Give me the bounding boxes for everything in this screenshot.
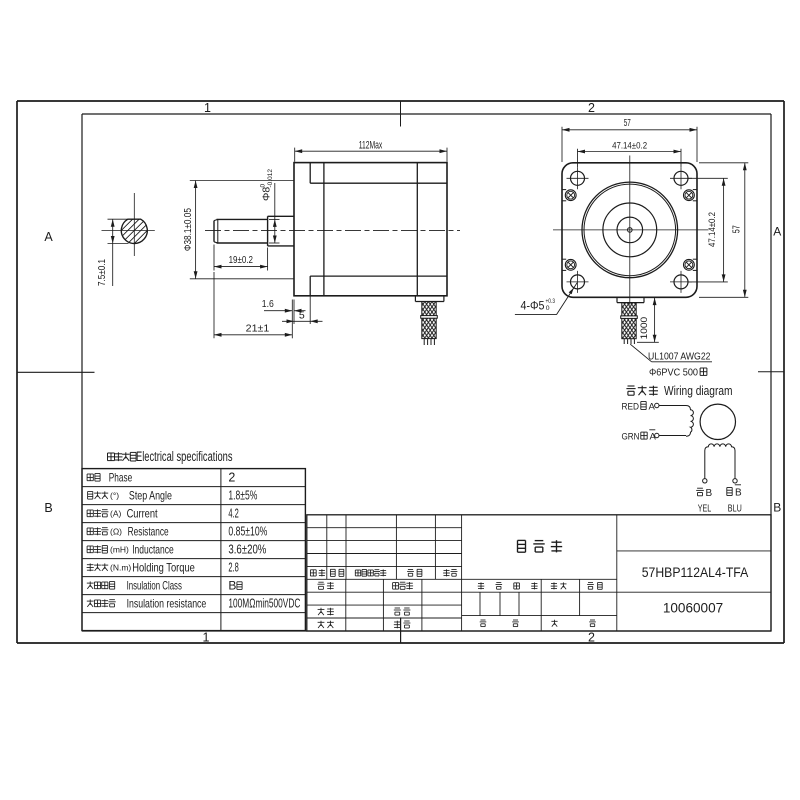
label 标准化 [393,582,399,584]
title block revision rows [307,527,462,529]
dimension Φ8-0.012 extension lines [269,218,280,220]
svg-text:0: 0 [260,184,267,188]
shaft section horizontal centerline [102,230,155,232]
svg-text:1: 1 [203,631,210,645]
rear cap joint line [416,163,418,296]
label 黄B [697,487,703,489]
outer border frame [17,100,784,102]
svg-text:5: 5 [299,310,305,322]
svg-text:Electrical specifications: Electrical specifications [136,449,233,464]
cable braid (side view) [422,302,436,339]
dimension 57 top line and arrows [562,129,697,131]
rotor circle [700,404,735,439]
svg-text:7.5±0.1: 7.5±0.1 [97,259,108,286]
front cap joint line [323,163,325,296]
svg-text:A: A [650,431,657,442]
dimension 7.5±0.1 extension lines [108,218,129,220]
svg-text:Resistance: Resistance [128,525,169,539]
svg-text:21±1: 21±1 [246,322,270,334]
dimension 47.14±0.2 right line and arrows [723,178,725,282]
dimension 57 right line and arrows [744,163,746,297]
svg-text:Phase: Phase [109,471,133,485]
svg-text:B: B [773,501,781,515]
front boss (side view) [268,215,294,217]
terminal A-bar [655,433,659,437]
svg-text:-0.012: -0.012 [267,169,274,188]
rear cable boss (side view) [414,296,416,302]
title block outline [307,515,771,631]
wire A-bar [659,435,686,437]
svg-text:Wiring diagram: Wiring diagram [664,384,733,398]
mounting hole top-left [571,171,585,185]
cable lead wires (side view) [423,339,425,345]
motor body outline (side view) [294,163,447,296]
assembly screw top-right [684,190,695,201]
svg-text:Inductance: Inductance [132,543,174,557]
title block lower columns [345,579,347,631]
assembly screw bottom-left [565,259,576,270]
dimension 1000 line and arrows [654,298,656,343]
label 第 页 [551,620,557,622]
mid table row 图样标记 重量 比例 [462,578,617,580]
svg-text:2: 2 [228,471,235,485]
svg-text:4.2: 4.2 [228,507,238,521]
dimension 21±1 line and arrows [214,334,292,336]
dimension Φ38.1±0.05 line and arrows [195,181,197,279]
label 蓝B-bar [727,487,732,489]
spec-sheet cell 规格书 [518,539,526,541]
spec table title 技术参数Electrical specifications [108,452,115,454]
spec row Inductance [87,545,93,547]
svg-text:B: B [706,488,713,499]
dimension 1.6 extension line [293,300,295,325]
svg-text:(°): (°) [110,490,119,500]
pilot boss outer circle [582,182,678,278]
svg-text:1: 1 [204,101,211,115]
dimension 47.14±0.2 top line and arrows [578,151,682,153]
wire A [659,405,686,407]
assembly screw top-left [565,190,576,201]
svg-text:2: 2 [588,101,595,115]
svg-text:47.14±0.2: 47.14±0.2 [707,212,718,247]
cable ferrule band (front view) [621,316,638,319]
leader 4-Φ5 [515,314,557,316]
svg-text:10060007: 10060007 [663,599,723,615]
svg-text:Holding Torque: Holding Torque [132,561,195,575]
mounting hole bottom-right [674,275,688,289]
shaft (side view) [217,218,268,220]
leader UL1007 [630,344,651,362]
dimension 5 extension line [309,296,311,324]
svg-text:B: B [228,579,236,593]
front view vertical centerline [629,156,631,305]
svg-text:A: A [773,225,781,239]
shaft centerline [205,229,460,231]
label 日期 [394,621,400,623]
svg-text:BLU: BLU [728,503,742,514]
model number column lines [616,515,618,631]
spec row Current [87,509,93,511]
spec row Step Angle [88,491,93,493]
svg-text:Step Angle: Step Angle [129,489,172,503]
shaft circle (front view) [617,217,643,243]
svg-text:(N.m): (N.m) [110,562,131,572]
motor body inner top line [310,182,447,184]
svg-text:Insulation resistance: Insulation resistance [127,597,207,611]
mounting hole top-right [674,171,688,185]
wiring diagram title 接线图Wiring diagram [628,385,635,387]
svg-text:(Ω): (Ω) [110,526,122,536]
right zone divider A/B [758,371,784,373]
label 图样标记 [478,583,484,585]
left zone divider A/B [17,371,95,373]
terminal B [703,479,707,483]
svg-text:112Max: 112Max [359,140,383,152]
svg-text:Φ6PVC 500: Φ6PVC 500 [649,367,698,379]
cable braid (front view) [622,303,636,339]
dimension 19±0.2 extension lines [213,245,215,271]
subcells under 图样标记 [479,592,481,615]
svg-text:3.6±20%: 3.6±20% [228,543,266,557]
label 审核 [318,608,325,610]
dimension 21±1 extension lines [213,272,215,338]
svg-text:19±0.2: 19±0.2 [229,254,254,266]
dimension 1000 extension lines [645,297,661,299]
front cap step verticals [309,163,311,184]
spec row Insulation Class [87,582,94,584]
inner border frame [82,113,771,115]
svg-text:57HBP112AL4-TFA: 57HBP112AL4-TFA [642,564,749,580]
dimension text Φ8-0.012 [260,169,275,201]
spec table grid [82,469,305,631]
dimension 57 right extension lines [699,162,748,164]
svg-text:RED: RED [622,401,640,412]
label 重量 [551,583,557,585]
svg-text:57: 57 [732,225,743,233]
shaft cross-section circle with flat [121,219,147,243]
svg-text:4-Φ5: 4-Φ5 [521,299,545,313]
svg-text:B: B [44,501,52,515]
svg-text:GRN: GRN [622,431,640,442]
label 设计 [318,581,323,583]
assembly screw bottom-right [684,259,695,270]
motor body inner bottom line [310,275,447,277]
spec row Insulation resistance [87,600,94,602]
svg-text:1000: 1000 [639,317,650,340]
dimension Φ38.1±0.05 extension lines [190,180,294,182]
svg-text:2: 2 [588,631,595,645]
shaft center mark circle [628,228,633,233]
svg-text:0.85±10%: 0.85±10% [228,525,267,539]
header 标记 处数 更改文件号 签字 日期 [310,569,316,571]
dimension 112Max line and arrows [295,150,447,152]
pilot boss inner circle [584,184,676,276]
top zone tick [400,101,402,127]
spec row Holding Torque [87,564,94,566]
svg-text:47.14±0.2: 47.14±0.2 [612,140,647,151]
dimension 7.5±0.1 line and arrows [112,219,114,286]
cable ferrule band (side view) [421,316,438,319]
label 比例 [588,582,593,584]
svg-text:(A): (A) [110,508,122,518]
svg-text:0: 0 [546,305,550,312]
bearing boss circle [603,203,657,257]
svg-text:(mH): (mH) [110,544,129,554]
hole extension lines to 47.14 dimensions [577,149,579,168]
svg-text:+0.3: +0.3 [546,298,556,305]
terminal A [655,403,659,407]
dimension 57 top extension lines [561,127,563,162]
dimension 1.6 lines and arrows [264,310,292,312]
label 共 页 [481,619,486,621]
svg-text:1.8±5%: 1.8±5% [228,489,257,503]
svg-text:Φ8: Φ8 [261,187,273,201]
svg-text:YEL: YEL [698,503,712,514]
svg-text:100MΩmin500VDC: 100MΩmin500VDC [228,597,300,611]
title block mid divider [461,515,463,631]
svg-text:57: 57 [624,118,631,129]
svg-text:2.8: 2.8 [228,561,238,575]
terminal B-bar [733,479,737,483]
cable boss (front view) [616,297,618,302]
title block upper columns [326,515,328,580]
label 工艺 [318,621,325,623]
front view horizontal centerline [553,229,709,231]
svg-text:B: B [735,487,742,498]
mounting hole bottom-left [571,275,585,289]
svg-text:1.6: 1.6 [262,298,274,310]
label 批准 [395,607,400,609]
dimension 112Max extension lines [294,148,296,162]
dimension 5 line and arrows [282,320,323,322]
motor front face square [562,163,697,297]
svg-text:A: A [44,230,53,244]
bottom zone tick [400,617,402,643]
dimension Φ8-0.012 line and arrows [274,183,276,243]
shaft section vertical centerline [133,193,135,256]
spec row Resistance [87,527,93,529]
svg-text:UL1007 AWG22: UL1007 AWG22 [648,350,711,362]
dimension 19±0.2 line and arrows [214,266,268,268]
svg-text:Φ38.1±0.05: Φ38.1±0.05 [183,208,194,251]
phase B coil [705,444,735,479]
svg-text:Current: Current [127,507,159,521]
cable lead wires (front view) [623,339,625,344]
phase A coil [686,406,693,437]
spec row Phase [87,473,93,475]
svg-text:Insulation Class: Insulation Class [127,579,182,593]
